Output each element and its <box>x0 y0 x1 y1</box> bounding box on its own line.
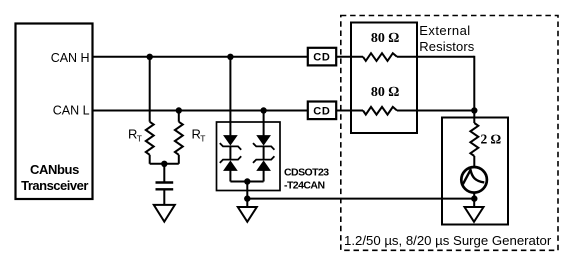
svg-text:-T24CAN: -T24CAN <box>284 180 325 192</box>
wire RT1 bottom <box>149 155 151 164</box>
TVS package box <box>217 122 281 191</box>
wire TVS left branch from CAN H crossing CAN L <box>229 57 231 136</box>
wire TVS left middle <box>229 146 231 159</box>
ground (termination capacitor) <box>154 205 175 222</box>
wire RT2 top from CAN L <box>178 111 180 122</box>
wire R3 to surge source <box>473 156 475 167</box>
wire RT1 top from CAN H crossing CAN L <box>149 57 151 122</box>
wire CAN H from R1 to top-right corner <box>397 56 474 58</box>
wire CAN H from CD1 to 80ohm resistor R1 <box>336 56 363 58</box>
svg-text:CAN H: CAN H <box>51 51 90 65</box>
wire CAN L from CD2 to 80ohm resistor R2 <box>336 110 363 112</box>
wire CAN H vertical down to junction with CAN L <box>473 56 475 111</box>
node CAN L / RT2 <box>176 107 182 113</box>
node surge generator return <box>471 195 477 201</box>
node CAN H / TVS left branch <box>227 54 233 60</box>
TVS diode D1b (bottom, anode down) <box>224 161 237 170</box>
wire CAN H from transceiver to CD1 <box>92 56 308 58</box>
TVS zener bar D2b cathode <box>253 156 274 163</box>
wire TVS left bottom <box>229 170 231 181</box>
svg-text:CAN L: CAN L <box>53 104 90 118</box>
label CDSOT23-T24CAN <box>284 167 329 192</box>
node CAN H meets CAN L at surge input <box>471 107 477 113</box>
resistor R3 2 ohm <box>470 123 478 156</box>
TVS diode D2b (bottom, anode down) <box>257 161 270 170</box>
resistor R1 80 ohm (CAN H) <box>363 53 397 61</box>
external resistors box <box>351 23 417 134</box>
ground (TVS) <box>238 207 257 222</box>
svg-text:80 Ω: 80 Ω <box>371 31 400 46</box>
svg-text:1.2/50 µs, 8/20 µs Surge Gener: 1.2/50 µs, 8/20 µs Surge Generator <box>344 233 552 248</box>
TVS zener bar D1b cathode <box>220 156 241 163</box>
node TVS ground / surge return <box>244 195 250 201</box>
surge source G1 (impulse generator) <box>461 167 487 193</box>
ground (surge generator) <box>465 207 484 222</box>
wire midpoint to capacitor <box>163 164 165 183</box>
wire joining TVS branches <box>230 181 263 183</box>
svg-text:2 Ω: 2 Ω <box>481 132 502 147</box>
wire CAN L from R2 to junction <box>397 110 474 112</box>
wire RT2 bottom <box>178 155 180 164</box>
surge generator box <box>442 118 508 225</box>
svg-text:CD: CD <box>313 105 331 117</box>
wire surge return (TVS ground to generator) <box>247 198 474 200</box>
label External Resistors <box>419 23 474 54</box>
choke CD2 (CAN L) <box>308 102 336 120</box>
svg-text:CDSOT23: CDSOT23 <box>284 167 329 179</box>
surge test fixture dashed boundary <box>341 16 558 251</box>
wire TVS right bottom <box>263 170 265 181</box>
TVS zener bar D2a cathode <box>253 143 274 150</box>
capacitor C1 <box>156 183 174 190</box>
svg-text:CANbus: CANbus <box>30 162 79 177</box>
resistor RT2 <box>175 122 183 155</box>
wire junction to 2 ohm resistor <box>473 111 475 124</box>
svg-text:Resistors: Resistors <box>419 39 474 54</box>
wire TVS common down <box>246 182 248 208</box>
wire TVS right branch from CAN L <box>263 111 265 136</box>
wire surge source to ground node <box>473 193 475 208</box>
resistor R2 80 ohm (CAN L) <box>363 107 397 115</box>
node split termination midpoint <box>161 161 167 167</box>
svg-text:Transceiver: Transceiver <box>21 178 88 193</box>
node CAN L / TVS right branch <box>260 107 266 113</box>
wire CAN L from transceiver to CD2 <box>92 110 308 112</box>
choke CD1 (CAN H) <box>308 48 336 66</box>
resistor RT1 <box>146 122 154 155</box>
CANbus Transceiver box U1 <box>16 24 93 200</box>
wire capacitor to ground <box>163 189 165 205</box>
TVS zener bar D1a cathode <box>220 143 241 150</box>
TVS diode D2a (top, anode up) <box>257 136 270 145</box>
node TVS common <box>244 178 250 184</box>
TVS diode D1a (top, anode up) <box>224 136 237 145</box>
wire TVS right middle <box>263 146 265 159</box>
svg-text:80 Ω: 80 Ω <box>371 85 400 100</box>
node CAN H / RT1 <box>147 54 153 60</box>
svg-text:CD: CD <box>313 52 331 64</box>
wire joining RT1 and RT2 bottoms <box>150 163 179 165</box>
svg-text:External: External <box>419 23 470 38</box>
